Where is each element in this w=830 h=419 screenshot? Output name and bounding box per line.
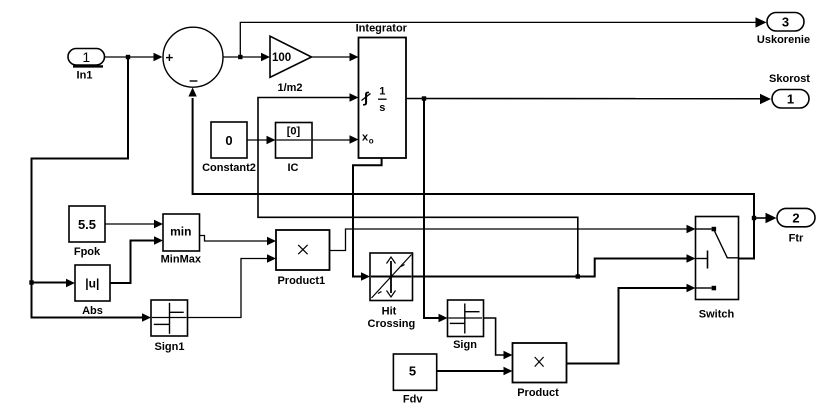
svg-text:|u|: |u|: [85, 276, 99, 290]
svg-text:MinMax: MinMax: [161, 254, 202, 266]
svg-text:5.5: 5.5: [78, 217, 96, 232]
svg-text:Switch: Switch: [699, 309, 735, 321]
svg-text:Fdv: Fdv: [403, 394, 423, 406]
svg-text:Integrator: Integrator: [356, 23, 408, 35]
svg-text:o: o: [369, 137, 374, 146]
svg-text:0: 0: [225, 133, 232, 148]
svg-text:1/m2: 1/m2: [277, 82, 302, 94]
svg-text:5: 5: [409, 364, 416, 379]
svg-text:In1: In1: [77, 70, 93, 82]
svg-text:min: min: [170, 225, 191, 239]
svg-text:Product1: Product1: [277, 275, 325, 287]
svg-text:Skorost: Skorost: [769, 73, 810, 85]
svg-text:Sign1: Sign1: [155, 341, 185, 353]
svg-text:2: 2: [792, 210, 799, 225]
svg-text:Fpok: Fpok: [74, 246, 101, 258]
svg-text:Crossing: Crossing: [368, 318, 416, 330]
svg-text:Sign: Sign: [453, 339, 477, 351]
svg-text:3: 3: [782, 15, 789, 30]
svg-text:1: 1: [787, 92, 794, 107]
svg-text:[0]: [0]: [287, 126, 301, 138]
svg-text:Abs: Abs: [82, 305, 103, 317]
svg-text:Ftr: Ftr: [789, 233, 804, 245]
svg-text:s: s: [379, 102, 385, 114]
svg-text:1: 1: [379, 86, 385, 98]
svg-text:100: 100: [272, 52, 291, 64]
svg-text:1: 1: [82, 49, 90, 65]
svg-text:Constant2: Constant2: [202, 162, 256, 174]
svg-text:Product: Product: [517, 387, 559, 399]
svg-text:Hit: Hit: [382, 306, 397, 318]
svg-text:Uskorenie: Uskorenie: [757, 34, 810, 46]
svg-text:IC: IC: [288, 162, 299, 174]
